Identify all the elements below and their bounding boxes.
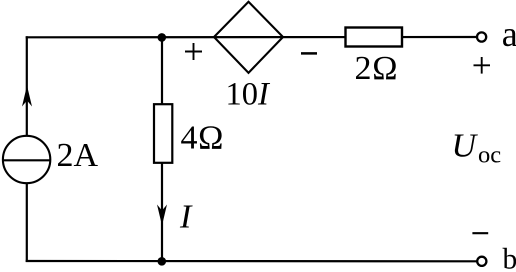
wire middle vertical lower (4ohm resistor to bottom node)	[161, 163, 163, 262]
terminal a (open circle)	[477, 32, 486, 41]
svg-text:10I: 10I	[226, 77, 272, 113]
junction node top (dot)	[158, 33, 167, 42]
polarity minus (above b)	[472, 232, 488, 234]
current I arrow (down)	[157, 205, 167, 226]
polarity plus (below a)	[474, 57, 491, 74]
current source 2A (circle with bar)	[3, 136, 50, 183]
svg-text:2Ω: 2Ω	[355, 50, 399, 87]
wire left vertical lower segment	[26, 183, 28, 262]
svg-text:U: U	[452, 128, 479, 165]
resistor 2ohm (rect)	[346, 28, 403, 47]
resistor 4ohm (rect)	[154, 104, 172, 163]
svg-text:a: a	[502, 14, 516, 54]
current source direction arrow (up)	[22, 86, 32, 107]
terminal b (open circle)	[477, 257, 486, 266]
junction node bottom (dot)	[158, 257, 167, 266]
polarity minus (right of diamond)	[301, 52, 317, 55]
wire bottom horizontal from left corner to terminal b	[26, 260, 477, 262]
polarity plus (left of diamond)	[185, 43, 202, 60]
svg-text:oc: oc	[478, 141, 501, 168]
svg-text:I: I	[179, 198, 193, 235]
svg-text:4Ω: 4Ω	[181, 120, 224, 157]
wire top horizontal from left corner to terminal a	[26, 36, 477, 38]
wire middle vertical upper (node to 4ohm resistor)	[161, 37, 163, 105]
wire left vertical upper segment	[26, 36, 28, 136]
svg-text:2A: 2A	[57, 137, 99, 174]
dependent source U1 diamond 10I	[214, 2, 283, 73]
svg-text:b: b	[503, 243, 516, 272]
